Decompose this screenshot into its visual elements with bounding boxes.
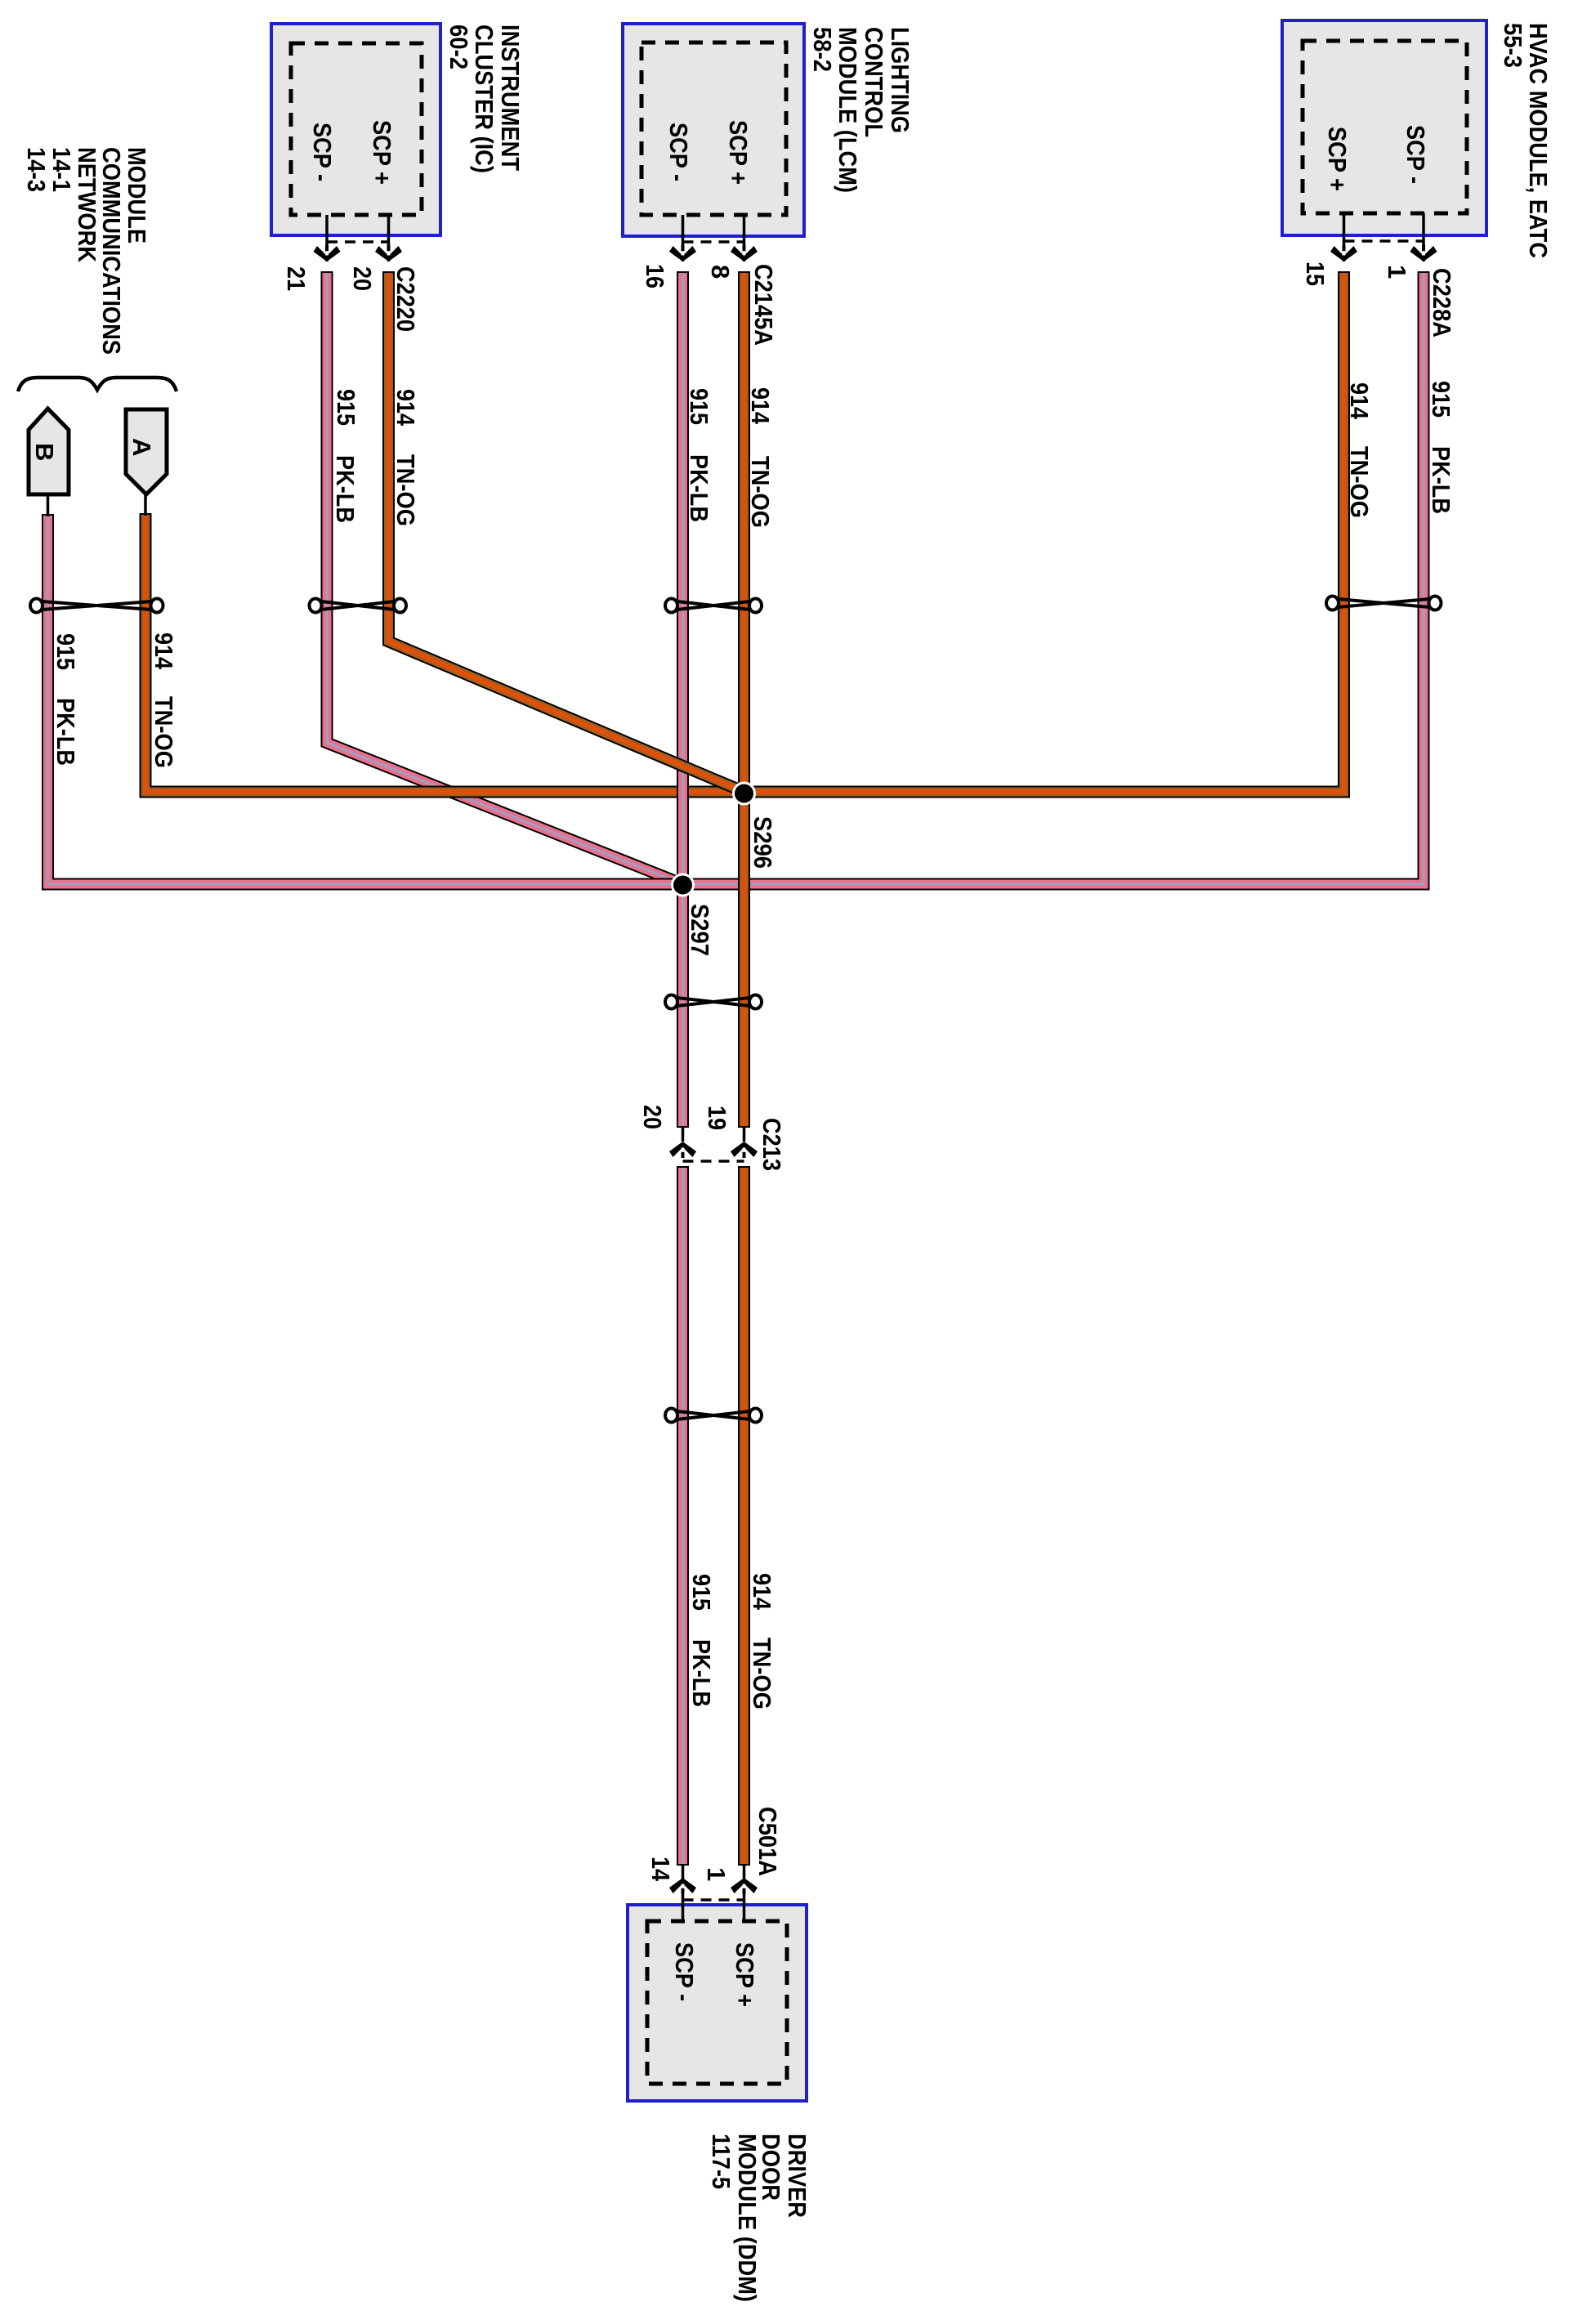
svg-text:MODULE: MODULE — [123, 147, 151, 244]
wire: circuit 914 TN-OG from LCM pin 8 down to connector C213 pin 19 — [738, 271, 750, 1128]
svg-text:20: 20 — [348, 266, 377, 291]
IC title: INSTRUMENT CLUSTER (IC) 60-2 — [445, 25, 525, 173]
svg-text:MODULE (LCM): MODULE (LCM) — [834, 27, 862, 193]
connector C501A symbol at DDM (leads, arrows, dashed link) — [669, 1864, 758, 1921]
svg-text:914: 914 — [391, 389, 420, 427]
svg-text:CLUSTER (IC): CLUSTER (IC) — [470, 25, 498, 173]
svg-text:915: 915 — [51, 633, 80, 670]
circuit label 914 TN-OG (IC branch) — [391, 389, 420, 526]
svg-text:B: B — [30, 443, 59, 461]
svg-text:914: 914 — [748, 1573, 776, 1611]
svg-text:C501A: C501A — [753, 1807, 782, 1876]
svg-text:S296: S296 — [749, 816, 777, 869]
svg-text:SCP +: SCP + — [724, 120, 753, 185]
connector C213 in-line symbol (leads, arrows, dashed link) — [669, 1126, 758, 1161]
svg-text:117-5: 117-5 — [707, 2134, 735, 2189]
circuit label 915 PK-LB (LCM branch) — [685, 388, 713, 522]
svg-text:SCP +: SCP + — [1323, 127, 1352, 191]
splice S296 (914 TN-OG junction) — [734, 783, 755, 804]
module box: LIGHTING CONTROL MODULE (LCM) — [623, 24, 804, 236]
svg-text:14-3: 14-3 — [22, 147, 51, 192]
svg-text:C2145A: C2145A — [749, 264, 778, 346]
circuit label 914 TN-OG (LCM branch) — [746, 387, 775, 528]
brace over network branch flags — [18, 378, 177, 391]
svg-text:SCP -: SCP - — [670, 1942, 699, 2001]
wire: circuit 914 TN-OG from connector C213 pin 19 down to DDM pin 1 — [738, 1166, 750, 1866]
svg-text:SCP -: SCP - — [308, 123, 337, 181]
circuit label 915 PK-LB (IC branch) — [331, 389, 360, 523]
network label: MODULE COMMUNICATIONS NETWORK 14-1 14-3 — [22, 147, 151, 355]
svg-text:15: 15 — [1301, 261, 1330, 286]
svg-text:14: 14 — [646, 1857, 675, 1882]
module box: DRIVER DOOR MODULE (DDM) — [628, 1905, 807, 2101]
svg-text:SCP -: SCP - — [664, 123, 693, 181]
circuit label 915 PK-LB (HVAC branch) — [1427, 381, 1455, 514]
svg-text:SCP +: SCP + — [731, 1942, 759, 2007]
DDM title: DRIVER DOOR MODULE (DDM) 117-5 — [707, 2134, 811, 2302]
circuit label 914 TN-OG (network A branch) — [150, 632, 178, 768]
twisted-pair symbol on LCM pair — [677, 601, 750, 610]
svg-text:SCP -: SCP - — [1401, 125, 1430, 184]
svg-text:PK-LB: PK-LB — [51, 698, 80, 766]
svg-text:A: A — [127, 438, 156, 456]
svg-text:21: 21 — [282, 266, 311, 291]
HVAC title: HVAC MODULE, EATC 55-3 — [1499, 23, 1553, 258]
wire: circuit 915 PK-LB network branch B to splice S297 to HVAC pin 1 — [48, 271, 1424, 884]
svg-text:CONTROL: CONTROL — [860, 27, 888, 137]
svg-text:SCP +: SCP + — [368, 120, 396, 185]
svg-text:C2220: C2220 — [391, 266, 420, 332]
wire: circuit 915 PK-LB from IC pin 21 down and diagonal to splice S297 — [327, 271, 684, 885]
twisted-pair symbol on DDM pair above C213 — [677, 998, 750, 1006]
module box: INSTRUMENT CLUSTER (IC) — [271, 24, 440, 235]
wire: circuit 914 TN-OG from IC pin 20 down and diagonal to splice S296 — [389, 271, 746, 793]
svg-text:C213: C213 — [758, 1118, 786, 1171]
svg-text:MODULE (DDM): MODULE (DDM) — [733, 2134, 762, 2302]
svg-text:S297: S297 — [686, 904, 714, 956]
svg-text:C228A: C228A — [1428, 268, 1456, 337]
twisted-pair symbol on HVAC pair — [1339, 599, 1430, 607]
off-page flag B (to 14-3) — [29, 409, 69, 516]
svg-text:LIGHTING: LIGHTING — [886, 27, 914, 133]
circuit label 915 PK-LB (DDM branch) — [687, 1574, 716, 1707]
svg-text:PK-LB: PK-LB — [331, 455, 360, 523]
twisted-pair symbol on DDM pair below C213 — [677, 1411, 750, 1419]
svg-text:914: 914 — [150, 632, 178, 670]
connector C2145A symbol at LCM (leads, arrows, dashed link) — [669, 215, 758, 261]
LCM title: LIGHTING CONTROL MODULE (LCM) 58-2 — [808, 27, 914, 193]
svg-text:TN-OG: TN-OG — [150, 696, 178, 768]
wire: circuit 915 PK-LB from connector C213 pin 20 down to DDM pin 14 — [677, 1166, 689, 1866]
splice S297 (915 PK-LB junction) — [673, 874, 694, 896]
svg-text:8: 8 — [706, 265, 735, 279]
circuit label 914 TN-OG (HVAC branch) — [1345, 382, 1374, 518]
circuit label 915 PK-LB (network B branch) — [51, 633, 80, 766]
svg-text:NETWORK: NETWORK — [73, 147, 101, 263]
svg-text:915: 915 — [1427, 381, 1455, 418]
svg-text:16: 16 — [641, 264, 669, 288]
svg-text:PK-LB: PK-LB — [687, 1639, 716, 1707]
svg-text:14-1: 14-1 — [47, 147, 76, 192]
off-page flag A (to 14-1) — [126, 409, 167, 516]
svg-text:PK-LB: PK-LB — [1427, 446, 1455, 514]
svg-text:TN-OG: TN-OG — [748, 1638, 776, 1709]
module box: HVAC MODULE, EATC — [1282, 20, 1486, 235]
svg-text:PK-LB: PK-LB — [685, 454, 713, 522]
svg-text:1: 1 — [702, 1867, 731, 1881]
svg-text:914: 914 — [746, 387, 775, 425]
connector C2220 symbol at IC (leads, arrows, dashed link) — [314, 215, 403, 261]
svg-text:915: 915 — [687, 1574, 716, 1611]
twisted-pair symbol on IC pair — [321, 601, 395, 610]
svg-text:915: 915 — [685, 388, 713, 425]
connector C228A symbol at HVAC (leads, arrows, dashed link) — [1330, 213, 1437, 261]
svg-text:55-3: 55-3 — [1499, 23, 1527, 68]
circuit label 914 TN-OG (DDM branch) — [748, 1573, 776, 1709]
wire: circuit 914 TN-OG network branch A to splice S296 to HVAC pin 15 — [145, 271, 1344, 792]
svg-text:915: 915 — [332, 389, 360, 426]
svg-text:TN-OG: TN-OG — [746, 456, 775, 528]
svg-text:TN-OG: TN-OG — [1345, 446, 1374, 518]
svg-text:60-2: 60-2 — [445, 25, 473, 69]
svg-text:58-2: 58-2 — [808, 27, 837, 72]
svg-text:INSTRUMENT: INSTRUMENT — [496, 25, 525, 171]
svg-text:HVAC MODULE, EATC: HVAC MODULE, EATC — [1524, 23, 1553, 258]
svg-text:DRIVER: DRIVER — [783, 2134, 811, 2218]
svg-text:TN-OG: TN-OG — [391, 454, 420, 526]
svg-text:914: 914 — [1345, 382, 1374, 420]
svg-text:1: 1 — [1383, 265, 1411, 279]
twisted-pair symbol on network branch pair (B/A) — [42, 601, 152, 610]
wire: circuit 915 PK-LB from LCM pin 16 down through splice S297 to connector C213 pin 20 — [677, 271, 689, 1128]
svg-text:20: 20 — [638, 1105, 667, 1129]
svg-text:19: 19 — [703, 1106, 731, 1130]
